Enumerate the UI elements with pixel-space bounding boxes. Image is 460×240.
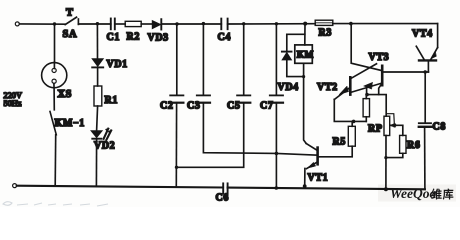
resistor R1 xyxy=(94,86,102,106)
wire: RP bottom to rail xyxy=(385,136,387,190)
svg-text:KM−1: KM−1 xyxy=(55,118,85,129)
svg-text:C1: C1 xyxy=(107,32,120,43)
wire: C1 to R2 xyxy=(115,23,125,25)
diode VD3 xyxy=(152,21,160,29)
wire: R2 to VD3 xyxy=(141,23,152,25)
wire: jog to VD4 xyxy=(287,34,305,51)
capacitor C1 xyxy=(110,19,112,30)
svg-text:VD4: VD4 xyxy=(278,82,299,93)
svg-text:VD1: VD1 xyxy=(107,59,128,70)
wire: C5 down then left to C2 wire xyxy=(177,103,244,168)
capacitor C6 xyxy=(222,183,224,193)
node KM branch junction xyxy=(303,22,307,26)
capacitor C4 xyxy=(220,19,222,30)
wire: C7 to bottom rail xyxy=(275,103,277,188)
capacitor C3 xyxy=(197,94,210,96)
potentiometer RP xyxy=(384,116,390,135)
svg-text:T: T xyxy=(66,8,74,19)
socket XS xyxy=(42,63,67,88)
svg-text:VT1: VT1 xyxy=(308,173,329,184)
wire: C2 drop from top rail xyxy=(176,24,178,95)
wire: SA to C1 xyxy=(78,23,110,25)
svg-text:C3: C3 xyxy=(187,101,200,112)
svg-text:R3: R3 xyxy=(319,28,332,39)
wire: C2 to bottom rail xyxy=(175,103,177,187)
svg-text:50Hz: 50Hz xyxy=(4,99,22,108)
wire top rail: terminal to SA xyxy=(19,23,65,25)
wire: VD3 to C4 xyxy=(161,23,221,25)
svg-text:VT3: VT3 xyxy=(369,52,390,63)
wire: emitter node to RP xyxy=(367,95,386,117)
switch KM-1 contact xyxy=(50,112,56,135)
watermark WeeQoo xyxy=(390,186,454,201)
transistor VT2 xyxy=(349,77,352,94)
transistor VT4 xyxy=(419,59,436,61)
wire: R6 bottom jog xyxy=(386,153,403,157)
switch SA (T) xyxy=(65,17,76,24)
node: VD1 branch junction xyxy=(96,22,99,25)
svg-text:C5: C5 xyxy=(227,101,240,112)
svg-text:WeeQoo: WeeQoo xyxy=(390,186,436,201)
svg-text:VT4: VT4 xyxy=(412,29,433,40)
svg-text:XS: XS xyxy=(58,89,73,100)
wire: VD2 to bottom rail xyxy=(95,140,97,187)
wire: R5 bottom to VT1 xyxy=(319,146,352,157)
svg-text:VT2: VT2 xyxy=(317,82,338,93)
svg-text:R6: R6 xyxy=(407,140,420,151)
svg-text:维库: 维库 xyxy=(431,187,454,201)
wire: C8 drop xyxy=(424,72,426,123)
wire: VD1 to R1 xyxy=(97,67,99,86)
resistor R5 xyxy=(348,126,355,146)
transistor VT1 xyxy=(316,148,319,165)
diode VD1 xyxy=(92,59,103,67)
capacitor C7 xyxy=(270,94,283,96)
svg-text:C7: C7 xyxy=(260,101,273,112)
capacitor C5 xyxy=(237,94,250,96)
resistor R4 xyxy=(363,99,369,117)
wire: VD4 bottom jog xyxy=(287,60,304,77)
node C5 junction xyxy=(242,22,245,25)
faint bottom-left smudge xyxy=(3,202,108,206)
wire: XS to KM-1 xyxy=(53,83,55,110)
capacitor C8 xyxy=(419,122,431,124)
wire: R1 to VD2 xyxy=(97,106,98,131)
wire bottom rail left of C6 xyxy=(17,186,223,188)
wire: VT4 feed drop xyxy=(437,24,439,48)
wire: XS branch drop xyxy=(54,24,56,63)
resistor R6 xyxy=(400,135,406,153)
svg-text:R1: R1 xyxy=(105,95,118,106)
node C2 junction xyxy=(175,22,178,25)
wire: KM-1 to bottom rail xyxy=(54,135,57,186)
svg-text:C2: C2 xyxy=(160,101,173,112)
svg-text:C8: C8 xyxy=(433,122,446,133)
diode VD4 xyxy=(282,51,292,53)
wire: C8 to bottom rail xyxy=(424,127,426,190)
wire: VT2 base drop xyxy=(334,99,366,121)
wire: R3 to VT4 drop xyxy=(333,23,438,25)
bottom-left terminal xyxy=(13,184,17,188)
svg-text:KM: KM xyxy=(297,51,314,61)
svg-text:VD3: VD3 xyxy=(148,33,169,44)
LED VD2 xyxy=(91,131,102,138)
capacitor C2 xyxy=(170,94,183,96)
svg-text:RP: RP xyxy=(368,124,383,135)
node: emitter junction to R4 xyxy=(365,93,369,97)
svg-text:R2: R2 xyxy=(127,32,140,43)
relay coil KM xyxy=(295,45,313,63)
svg-text:C6: C6 xyxy=(216,193,229,204)
wire: KM bottom to VT1 collector xyxy=(304,63,307,143)
wire: C7 drop from top rail xyxy=(275,24,277,95)
wire: C3 drop from top rail xyxy=(202,24,204,95)
svg-text:C4: C4 xyxy=(218,32,231,43)
resistor R2 xyxy=(125,21,141,26)
wire: VT2 supply drop and slope to VT3 xyxy=(351,24,382,71)
wire: VT4 emitter to H-line xyxy=(427,61,429,72)
wire: KM/VD4 feed from rail xyxy=(304,24,306,45)
node C7 junction xyxy=(275,22,278,25)
resistor R3 xyxy=(315,20,333,25)
node VT2 supply junction xyxy=(349,22,353,26)
svg-text:SA: SA xyxy=(63,29,78,40)
transistor VT3 xyxy=(381,66,384,85)
wire: C3 down then right to VT1 base xyxy=(203,103,317,156)
node C3 junction xyxy=(202,22,205,25)
svg-text:R5: R5 xyxy=(333,137,346,148)
top-left AC terminal xyxy=(15,22,19,26)
wire: C4 to R3 xyxy=(228,23,316,25)
wire bottom rail right of C6 xyxy=(228,188,425,190)
wire: VD1 branch drop xyxy=(96,24,98,59)
wire: C5 drop from top rail xyxy=(243,24,245,95)
